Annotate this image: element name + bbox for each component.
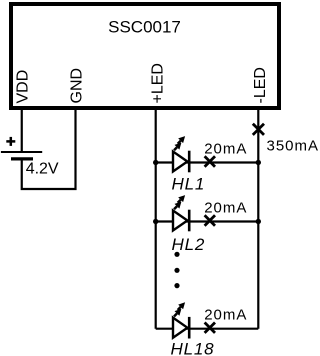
LED HL1 cathode bar [188,151,191,173]
LED HL2 cathode bar [188,210,191,232]
svg-text:HL18: HL18 [171,340,215,356]
LED HL1 triangle [173,152,187,172]
ellipsis dot 2 [174,268,179,273]
LED HL2 emission arrow a [174,202,181,210]
wire LED row HL18 [156,328,259,330]
IC U1 (LED driver box) [11,4,279,108]
ellipsis dot 3 [174,283,179,288]
svg-text:350mA: 350mA [267,137,320,154]
current marker X 20mA row HL18 [205,323,215,333]
battery G1 polarity plus sign [6,137,15,146]
svg-text:HL1: HL1 [172,175,206,194]
battery G1 negative plate [11,157,33,160]
svg-text:20mA: 20mA [204,141,247,158]
svg-text:+LED: +LED [150,63,167,103]
wire LED row HL2 [156,220,259,222]
wire +LED rail [155,110,157,329]
junction HL1 left [153,160,158,165]
LED HL18 emission arrow a [174,309,181,317]
svg-text:-LED: -LED [252,67,269,103]
wire LED row HL1 [156,161,259,163]
LED HL2 triangle [173,211,187,231]
junction HL2 right [256,219,261,224]
LED HL18 cathode bar [188,317,191,339]
LED HL2 emission arrow b [178,195,185,203]
svg-text:HL2: HL2 [172,235,206,254]
wire VDD pin to battery positive [21,110,23,152]
LED HL1 emission arrow a [174,143,181,151]
svg-text:4.2V: 4.2V [26,161,59,178]
current marker X 20mA row HL2 [205,215,215,225]
fuse/current marker X 350mA on -LED rail [253,124,264,135]
svg-text:20mA: 20mA [204,307,247,324]
wire battery negative to GND pin [22,110,76,189]
svg-text:SSC0017: SSC0017 [108,18,181,37]
svg-text:GND: GND [69,68,86,104]
svg-text:VDD: VDD [15,70,32,104]
LED HL1 emission arrow b [178,136,185,144]
ellipsis dot 1 [174,252,179,257]
battery G1 positive plate [1,151,42,153]
junction HL1 right [256,160,261,165]
junction HL2 left [153,219,158,224]
LED HL18 triangle [173,318,187,338]
current marker X 20mA row HL1 [205,156,215,166]
svg-text:20mA: 20mA [204,200,247,217]
wire -LED rail [257,110,259,329]
LED HL18 emission arrow b [178,302,185,310]
